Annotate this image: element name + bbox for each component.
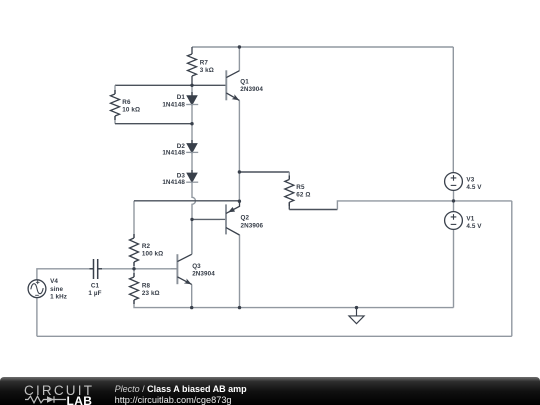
svg-text:1N4148: 1N4148 bbox=[162, 179, 185, 186]
resistor R7 bbox=[188, 47, 214, 85]
svg-text:R8: R8 bbox=[142, 282, 151, 289]
wire Q3 collector up to node bbox=[191, 219, 193, 254]
CircuitLab logo bbox=[24, 383, 94, 398]
wire Q2 base bbox=[192, 218, 220, 220]
wire V3 bottom to mid node bbox=[453, 190, 455, 211]
diode D2 bbox=[162, 140, 198, 157]
transistor Q1 bbox=[220, 70, 263, 100]
svg-text:Q3: Q3 bbox=[192, 263, 201, 270]
wire R6 bottom horizontal bbox=[115, 123, 192, 125]
wire R6 left vertical bottom bbox=[114, 116, 116, 124]
svg-text:1 µF: 1 µF bbox=[88, 290, 101, 297]
diode D1 bbox=[162, 92, 198, 109]
wire R5 bottom step bbox=[289, 202, 337, 209]
node R2 tap / Q2 emitter bbox=[238, 200, 241, 203]
node Q3 emitter at rail bbox=[190, 306, 193, 309]
svg-text:10 kΩ: 10 kΩ bbox=[122, 107, 140, 114]
svg-text:100 kΩ: 100 kΩ bbox=[142, 251, 163, 258]
wire right side down to V3 bbox=[452, 47, 454, 173]
wire R2 bottom stub bbox=[133, 262, 135, 269]
resistor R6 bbox=[111, 90, 141, 120]
node R7/Q1 base/R6/D1 bbox=[190, 84, 193, 87]
wire Q2 collector down to rail bbox=[239, 235, 241, 308]
svg-text:V4: V4 bbox=[50, 278, 58, 285]
wire R8 top stub bbox=[133, 269, 135, 277]
svg-text:V3: V3 bbox=[466, 176, 474, 183]
svg-text:2N3904: 2N3904 bbox=[192, 271, 215, 278]
svg-text:Q1: Q1 bbox=[240, 78, 249, 85]
node Q2 base / Q3 collector bbox=[190, 218, 193, 221]
svg-text:4.5 V: 4.5 V bbox=[466, 184, 482, 191]
svg-text:Q2: Q2 bbox=[241, 215, 250, 222]
svg-text:R5: R5 bbox=[296, 184, 305, 191]
node C1/R2/R8/Q3 base bbox=[132, 267, 135, 270]
wire R5 top stub bbox=[288, 172, 290, 180]
wire Q3 emitter down to rail bbox=[191, 284, 193, 307]
wire V1 bottom to rail bbox=[453, 229, 455, 307]
footer bar bbox=[0, 377, 540, 405]
wire Q1 collector to rail bbox=[238, 47, 240, 71]
wire D2 to D3 bbox=[191, 152, 193, 173]
resistor R8 bbox=[130, 273, 160, 304]
node V3/V1 junction bbox=[452, 199, 455, 202]
svg-text:4.5 V: 4.5 V bbox=[466, 223, 482, 230]
wire R6 top horizontal bbox=[115, 84, 192, 86]
resistor R5 bbox=[285, 176, 311, 207]
wire V4 bottom bbox=[36, 298, 38, 337]
svg-text:2N3906: 2N3906 bbox=[241, 222, 264, 229]
wire step up to supplies line bbox=[337, 201, 511, 210]
wire C1 to base node bbox=[98, 268, 134, 270]
node R5 tap bbox=[238, 170, 241, 173]
wire R2 top vertical bbox=[133, 201, 135, 238]
wire Q1 base node to transistor bbox=[192, 84, 220, 86]
wire R8 bottom to ground rail bbox=[134, 300, 454, 308]
wire D3 down to Q2 base node with hop over R2 tap wire, then to Q3 collector bbox=[192, 182, 196, 254]
svg-text:62 Ω: 62 Ω bbox=[296, 192, 310, 199]
wire Q1 emitter down to R5 tap and R2 tap bbox=[238, 101, 240, 202]
svg-text:2N3904: 2N3904 bbox=[240, 86, 263, 93]
plot title bbox=[115, 384, 247, 394]
voltage source V3 bbox=[445, 173, 483, 191]
node Q2 collector at rail bbox=[238, 306, 241, 309]
capacitor C1 bbox=[88, 259, 102, 297]
diode D3 bbox=[162, 170, 198, 186]
svg-text:R2: R2 bbox=[142, 243, 151, 250]
svg-text:sine: sine bbox=[50, 286, 63, 293]
wire R2 tap horizontal bbox=[134, 200, 239, 202]
transistor Q3 bbox=[171, 254, 215, 284]
node ground tap bbox=[355, 306, 358, 309]
wire base node to Q3 bbox=[134, 268, 171, 270]
wire right outer vertical bbox=[511, 201, 513, 336]
svg-text:R6: R6 bbox=[122, 99, 131, 106]
node Q1 collector at rail bbox=[238, 45, 241, 48]
url bbox=[115, 395, 232, 405]
wire bottom outer rail bbox=[37, 335, 512, 337]
voltage source V4 sine bbox=[28, 278, 67, 300]
transistor Q2 bbox=[220, 201, 264, 235]
node R6 bottom on diode chain bbox=[190, 122, 193, 125]
wire D1 to D2 bbox=[191, 105, 193, 144]
logo waveform bbox=[25, 396, 47, 403]
wire V4 top to C1 bbox=[37, 269, 94, 280]
svg-text:C1: C1 bbox=[91, 282, 100, 289]
svg-text:1N4148: 1N4148 bbox=[162, 102, 185, 109]
svg-text:1 kHz: 1 kHz bbox=[50, 294, 67, 301]
svg-text:V1: V1 bbox=[466, 215, 474, 222]
voltage source V1 bbox=[445, 212, 483, 230]
wire top rail bbox=[192, 46, 453, 48]
wire D1 anode stub bbox=[191, 85, 193, 96]
svg-text:R7: R7 bbox=[200, 59, 209, 66]
svg-text:1N4148: 1N4148 bbox=[162, 150, 185, 157]
svg-text:3 kΩ: 3 kΩ bbox=[200, 67, 214, 74]
resistor R2 bbox=[130, 234, 164, 266]
svg-text:23 kΩ: 23 kΩ bbox=[142, 290, 160, 297]
wire R5 tap horizontal bbox=[239, 171, 289, 173]
svg-text:D1: D1 bbox=[177, 94, 186, 101]
wire R6 left vertical top bbox=[114, 85, 116, 94]
ground bbox=[349, 308, 364, 324]
